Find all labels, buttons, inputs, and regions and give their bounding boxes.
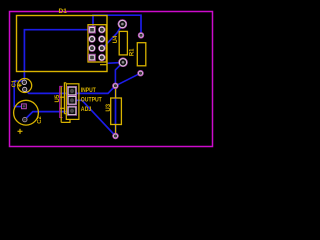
wire: trace T10 OUTPUT pad to U3 bottom pad [72, 100, 116, 136]
module D1 outline [17, 16, 108, 72]
svg-text:INPUT: INPUT [81, 88, 96, 94]
wire: trace T6 U4 top pad to connector pad 6 [103, 25, 122, 48]
svg-text:OUTPUT: OUTPUT [81, 97, 102, 103]
svg-text:U4: U4 [113, 35, 119, 43]
capacitor C1 plus mark [18, 84, 22, 88]
pad J1-6 [99, 36, 106, 43]
connector J1 extra silk stub [100, 64, 107, 66]
svg-text:U3: U3 [106, 103, 112, 111]
pad U5-2 OUTPUT [68, 96, 77, 105]
pad U4-2 [119, 58, 128, 67]
board outline Edge.Cuts [10, 12, 213, 147]
pad C1-2 [23, 87, 27, 91]
regulator U5 pad frame [66, 84, 79, 120]
pad J1-7 [99, 45, 106, 52]
pad J1-1 (square) [89, 26, 96, 33]
wire: trace T8 C1 top pad down left side to C2 top pad [14, 81, 24, 107]
resistor R1 body [137, 43, 146, 66]
pad R1-2 [138, 71, 143, 76]
pad J1-2 [89, 36, 96, 43]
wire: back-copper trace T1 pin1 to C1 top pad [24, 30, 93, 83]
capacitor C2 outline [14, 100, 39, 125]
resistor U3 body [111, 98, 122, 125]
wire: trace T9 C2 bottom pad to ADJ pad [25, 112, 76, 120]
pad J1-5 [99, 26, 106, 33]
module anchor plus mark [18, 129, 23, 134]
svg-text:C2: C2 [37, 116, 43, 123]
pad U3-2 [113, 133, 118, 138]
svg-text:D1: D1 [59, 8, 68, 15]
pad J1-4 (square) [89, 54, 96, 61]
regulator U5 front-layer tab line [60, 86, 63, 117]
resistor U3 lead stubs [115, 89, 117, 98]
pad C2-2 [23, 117, 27, 121]
wire: trace T5 connector area to U4 bottom pad [107, 61, 123, 64]
regulator U5 body silk [60, 83, 70, 123]
connector J1 outline [88, 25, 106, 62]
capacitor C1 outline [18, 79, 32, 93]
pad J1-3 [89, 45, 96, 52]
pad C2-1 (square) [22, 104, 27, 109]
pad U5-3 ADJ [68, 106, 77, 115]
svg-text:U5: U5 [55, 94, 61, 102]
component U4 body [119, 31, 127, 55]
pad U5-1 INPUT [68, 87, 77, 96]
wire: trace T4 U3 top pad to R1 bottom pad [115, 73, 140, 86]
pad U3-1 [113, 83, 118, 88]
wire: back-copper trace T2 pin1 up along D1 top to R1 top pad [93, 15, 141, 35]
pad C1-1 [22, 80, 26, 84]
wire: trace T7 C1 bottom pad through INPUT pad to U3 top pad [25, 86, 116, 94]
svg-text:R1: R1 [130, 48, 136, 56]
pad R1-1 [138, 33, 143, 38]
pad U4-1 [118, 20, 127, 29]
svg-text:C1: C1 [12, 79, 18, 87]
svg-text:ADJ: ADJ [81, 107, 92, 113]
wire: trace T3 U4 bottom pad to U3 top pad [115, 62, 123, 86]
wire: trace T11 vertical through U3 body [115, 86, 117, 136]
pad J1-8 [99, 54, 106, 61]
